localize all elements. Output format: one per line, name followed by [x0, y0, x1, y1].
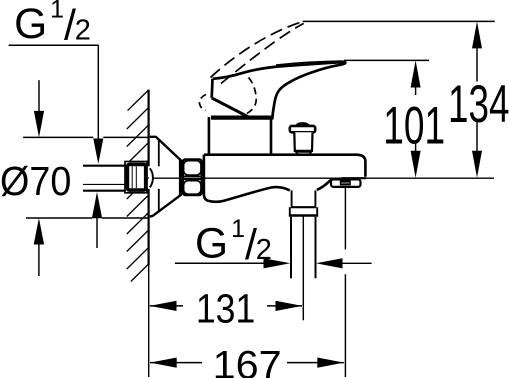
spout bottom edge	[342, 177, 367, 179]
dim Ø70 top arrow	[34, 111, 44, 137]
diverter knob dome	[296, 122, 310, 126]
svg-text:2: 2	[256, 234, 272, 266]
cartridge cylinder	[208, 117, 211, 155]
lever handle top edge	[213, 62, 343, 79]
svg-text:131: 131	[196, 285, 255, 331]
union nut	[183, 159, 202, 195]
supply pipe	[83, 167, 126, 190]
shower hose stub	[290, 217, 292, 278]
svg-text:G: G	[14, 1, 47, 48]
dim arrow pipe bottom	[92, 192, 102, 218]
dim Ø70 bottom arrow	[34, 218, 44, 245]
escutcheon flange	[150, 137, 181, 217]
svg-text:Ø70: Ø70	[0, 158, 71, 204]
lever top crease line	[276, 61, 343, 65]
dim Ø70 extension lines	[23, 136, 93, 138]
dim 131	[150, 305, 183, 307]
faucet body top edge	[204, 153, 358, 156]
faucet body underside curve	[209, 187, 290, 202]
svg-text:1: 1	[231, 215, 245, 243]
dim G1/2 top: underline and leader	[9, 44, 99, 46]
dim 167	[150, 362, 202, 364]
wall nut	[125, 162, 147, 193]
wall line	[148, 90, 150, 167]
dim 134	[303, 20, 495, 22]
faucet body right edge (spout tip)	[356, 155, 365, 177]
underside right of shower boss	[317, 180, 331, 190]
dim 167 right extension (aerator axis)	[344, 187, 346, 249]
diverter knob cap	[290, 126, 315, 132]
raised lever position (dashed)	[211, 22, 303, 78]
svg-text:134: 134	[448, 75, 509, 134]
svg-text:2: 2	[75, 14, 91, 46]
svg-text:167: 167	[213, 343, 282, 378]
lever back edge	[210, 79, 214, 98]
hidden dome (dashed)	[199, 95, 206, 111]
dim 101	[344, 59, 429, 61]
lever lower back slant	[212, 98, 249, 117]
faucet body left edge	[204, 155, 209, 201]
lever handle tip and underside	[272, 62, 345, 120]
svg-text:G: G	[195, 221, 228, 268]
svg-text:1: 1	[50, 0, 64, 23]
dim G1/2 bottom	[175, 262, 264, 264]
centerline / axis	[153, 177, 495, 179]
faucet body fill	[204, 155, 366, 203]
diverter knob stem	[294, 132, 312, 151]
dim 131 right extension (hose axis)	[302, 215, 304, 320]
wall hatching	[127, 90, 149, 282]
shower outlet coupling	[291, 190, 293, 206]
ball joint	[150, 168, 153, 187]
cartridge cap bar	[211, 115, 272, 119]
aerator	[331, 179, 361, 187]
wall line extension (131/167 reference)	[148, 265, 150, 377]
svg-text:101: 101	[383, 96, 445, 155]
